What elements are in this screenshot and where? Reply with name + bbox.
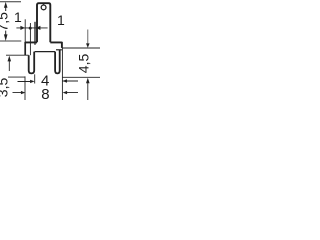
dim 8 line y92.6	[13, 92, 79, 94]
dim 4 line y81.2	[18, 80, 79, 83]
down arrow to y41 line	[5, 31, 7, 35]
svg-text:7,5: 7,5	[0, 12, 11, 32]
right chassis line y77.3	[62, 76, 100, 78]
up arrow top-left dim	[4, 2, 8, 8]
up arrow 3,5	[8, 56, 12, 62]
left chassis line y77	[8, 76, 25, 78]
right portion underside	[56, 49, 62, 51]
extension x25 bottom	[24, 76, 26, 100]
svg-text:1: 1	[57, 12, 65, 28]
down arrow 4,5 top	[87, 30, 89, 45]
body left edge	[24, 42, 26, 55]
tab outline	[37, 3, 50, 42]
svg-text:4,5: 4,5	[76, 54, 92, 74]
dim line y27.9 with arrows and dot	[16, 27, 47, 29]
svg-text:8: 8	[41, 86, 49, 100]
right extension x62.4	[61, 48, 63, 100]
body top edge	[25, 41, 62, 43]
extension x34.7 below leg	[34, 74, 36, 83]
extension x25.2 above body	[24, 19, 26, 42]
right leg	[55, 50, 60, 74]
right extension y48	[62, 47, 100, 49]
body right edge + corner	[61, 42, 63, 48]
up arrow 4,5 bottom	[86, 78, 90, 84]
hole	[41, 5, 46, 10]
svg-text:3,5: 3,5	[0, 78, 11, 98]
left extension line y41	[0, 40, 21, 42]
left leg	[29, 52, 35, 74]
technical drawing: solder terminal side view	[0, 0, 100, 100]
inner web underside	[35, 51, 56, 53]
left dim line y55.2	[6, 54, 29, 56]
thick vertical C at x35	[34, 22, 36, 45]
top extension line	[0, 1, 21, 3]
extension x30.4	[29, 23, 31, 55]
svg-text:1: 1	[14, 9, 22, 25]
